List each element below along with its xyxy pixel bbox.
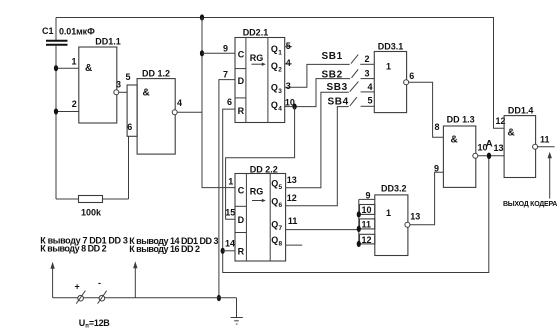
stub DD2.2 Q8 xyxy=(286,244,303,246)
register DD2.1 xyxy=(235,27,285,122)
wire C1 top vertical xyxy=(55,18,57,41)
svg-text:11: 11 xyxy=(362,220,372,230)
svg-text:Q: Q xyxy=(271,61,278,71)
svg-text:5: 5 xyxy=(126,72,131,82)
svg-text:Q: Q xyxy=(271,100,278,110)
svg-text:10: 10 xyxy=(285,97,295,107)
pin cell 11 xyxy=(360,219,375,229)
wire DD2.2 pin 14 stub xyxy=(223,250,235,252)
svg-text:C: C xyxy=(238,50,245,60)
svg-text:11: 11 xyxy=(540,134,550,144)
svg-text:Q: Q xyxy=(271,196,278,206)
switch SB3 xyxy=(350,82,359,92)
svg-text:3: 3 xyxy=(278,88,282,95)
svg-text:1: 1 xyxy=(386,208,391,218)
svg-text:DD2.1: DD2.1 xyxy=(243,27,269,37)
connector plus xyxy=(75,282,86,304)
pin cell 10 xyxy=(360,205,375,215)
gate DD1.4 xyxy=(504,106,549,178)
wire DD1.1 pin 2 xyxy=(56,111,79,113)
wire DD1.1 pin 1 xyxy=(56,67,79,69)
svg-text:&: & xyxy=(143,88,150,99)
svg-text:12: 12 xyxy=(362,235,372,245)
svg-text:&: & xyxy=(451,135,458,146)
svg-text:DD 1.2: DD 1.2 xyxy=(142,69,170,79)
svg-text:1: 1 xyxy=(386,62,391,72)
svg-text:7: 7 xyxy=(223,69,228,79)
logic gate DD3.1 xyxy=(374,42,414,113)
svg-text:DD1.1: DD1.1 xyxy=(95,36,121,46)
junction R-net at DD2.2 pin 14 xyxy=(221,248,225,254)
wire DD3.1 pin6 to DD1.3 pin 8 xyxy=(409,82,444,137)
svg-text:Q: Q xyxy=(271,235,278,245)
wire DD2.2 Q6 pin 12 to SB4 xyxy=(286,107,349,206)
svg-text:3: 3 xyxy=(286,81,291,91)
svg-text:13: 13 xyxy=(494,143,504,153)
svg-text:DD 2.2: DD 2.2 xyxy=(250,165,278,175)
svg-text:D: D xyxy=(238,215,245,225)
wire DD2.2 Q5 pin 13 to SB3 xyxy=(286,92,349,188)
wire DD3.1 pin 2 xyxy=(360,63,374,65)
stub DD2.1 Q1 pin 5 xyxy=(285,46,292,48)
arrow to pins left xyxy=(50,262,54,298)
junction on top rail clock net xyxy=(200,14,204,20)
svg-text:12: 12 xyxy=(287,193,297,203)
switch SB1 xyxy=(351,55,358,64)
svg-text:5: 5 xyxy=(286,41,291,51)
svg-text:4: 4 xyxy=(177,98,182,108)
svg-text:ВЫХОД КОДЕРА: ВЫХОД КОДЕРА xyxy=(503,201,557,208)
svg-text:2: 2 xyxy=(278,66,282,73)
capacitor C1 xyxy=(42,26,95,45)
wire DD3.1 pin 4 xyxy=(361,91,375,93)
svg-text:RG: RG xyxy=(250,53,263,63)
power rail xyxy=(53,297,237,299)
svg-text:5: 5 xyxy=(368,96,373,106)
svg-text:3: 3 xyxy=(365,68,370,78)
svg-text:К выводу 16 DD 2: К выводу 16 DD 2 xyxy=(129,244,200,254)
svg-text:4: 4 xyxy=(278,106,282,113)
svg-text:Uп=12В: Uп=12В xyxy=(79,318,110,330)
connector minus xyxy=(98,278,107,304)
wire pin3 to DD1.2 xyxy=(119,91,127,93)
svg-text:4: 4 xyxy=(368,82,373,92)
output arrow xyxy=(548,152,552,199)
junction Q4 xyxy=(293,104,297,110)
wire DD2.1 Q3 pin 3 to SB1 xyxy=(285,64,350,87)
resistor R1 100k loop xyxy=(56,136,129,217)
svg-text:15: 15 xyxy=(225,207,235,217)
svg-text:C1: C1 xyxy=(42,26,54,36)
gate DD1.2 xyxy=(126,69,183,155)
svg-text:SB4: SB4 xyxy=(328,96,349,107)
svg-text:5: 5 xyxy=(279,184,283,191)
svg-text:Q: Q xyxy=(271,83,278,93)
svg-text:DD3.2: DD3.2 xyxy=(381,183,407,193)
svg-text:6: 6 xyxy=(409,71,414,81)
wire DD2.1 pin 7 D-net down to power rail xyxy=(219,80,235,298)
switch SB4 xyxy=(350,97,357,106)
svg-text:SB2: SB2 xyxy=(322,69,343,80)
svg-text:SB3: SB3 xyxy=(327,82,348,93)
svg-text:&: & xyxy=(85,63,92,74)
svg-text:1: 1 xyxy=(228,176,233,186)
svg-text:6: 6 xyxy=(227,97,232,107)
logic gate DD3.2 xyxy=(375,183,420,255)
wire DD2.1 pin 6 R-net down, feedback to node A xyxy=(223,109,489,272)
gate DD1.3 xyxy=(443,114,487,187)
op-amp DD1.1 NAND gate xyxy=(79,36,121,123)
svg-text:8: 8 xyxy=(435,122,440,132)
svg-text:DD 1.3: DD 1.3 xyxy=(447,114,475,124)
wire DD1.4 output xyxy=(538,146,555,148)
svg-text:2: 2 xyxy=(365,54,370,64)
wire DD3.1 pin 5 xyxy=(361,105,375,107)
svg-text:7: 7 xyxy=(279,225,283,232)
junction clock at DD2.1 pin9 xyxy=(200,50,204,56)
svg-text:DD1.4: DD1.4 xyxy=(508,106,534,116)
svg-text:0.01мкФ: 0.01мкФ xyxy=(59,26,95,36)
svg-text:C: C xyxy=(238,185,245,195)
register DD2.2 xyxy=(235,165,286,262)
node A wire to DD1.4 pin 13 xyxy=(478,155,504,157)
ground xyxy=(231,298,243,324)
wire DD3.2 pin 9 xyxy=(359,198,375,200)
svg-text:R: R xyxy=(238,246,245,256)
arrow to pins right xyxy=(133,261,137,298)
svg-text:6: 6 xyxy=(127,122,132,132)
wire DD3.2 pin13 to DD1.3 pin 9 xyxy=(410,172,444,224)
switch SB2 xyxy=(352,69,359,78)
wire Q4 to DD2.2 D pin 15 xyxy=(226,107,295,220)
svg-text:DD3.1: DD3.1 xyxy=(378,42,404,52)
svg-text:13: 13 xyxy=(287,175,297,185)
DD3.2 input bus xyxy=(358,199,360,244)
wire top rail from C1 to DD1.4 pin 12 xyxy=(56,18,504,129)
svg-text:&: & xyxy=(508,127,515,138)
svg-text:14: 14 xyxy=(225,239,235,249)
svg-text:11: 11 xyxy=(288,216,298,226)
wire DD2.2 Q7 pin 11 to DD3.2 xyxy=(286,229,359,231)
wire DD2.1 Q4 pin 10 to SB2 xyxy=(285,79,350,107)
svg-text:13: 13 xyxy=(410,212,420,222)
svg-text:9: 9 xyxy=(434,163,439,173)
junction pin2 xyxy=(54,108,58,114)
svg-text:Q: Q xyxy=(271,178,278,188)
junction D-net on rail xyxy=(217,295,221,301)
svg-text:1: 1 xyxy=(72,57,77,67)
svg-text:Q: Q xyxy=(271,219,278,229)
stub DD2.1 Q2 pin 4 xyxy=(285,63,292,65)
svg-text:A: A xyxy=(486,139,493,150)
svg-text:+: + xyxy=(75,282,80,292)
wire DD2.1 pin 9 xyxy=(202,52,235,54)
svg-text:R: R xyxy=(238,106,245,116)
wire DD3.1 pin 3 xyxy=(361,78,375,80)
svg-text:Q: Q xyxy=(271,44,278,54)
junction pin1 xyxy=(54,65,58,71)
wire clock net vertical to DD2.2 C xyxy=(202,18,235,188)
svg-text:9: 9 xyxy=(366,191,371,201)
svg-text:10: 10 xyxy=(362,205,372,215)
svg-text:3: 3 xyxy=(116,80,121,90)
svg-text:D: D xyxy=(238,76,245,86)
svg-text:2: 2 xyxy=(72,99,77,109)
junction node A xyxy=(487,153,491,159)
svg-text:SB1: SB1 xyxy=(322,51,343,62)
svg-text:4: 4 xyxy=(286,58,291,68)
svg-text:8: 8 xyxy=(279,240,283,247)
svg-text:-: - xyxy=(98,278,101,288)
svg-text:К выводу 8 DD 2: К выводу 8 DD 2 xyxy=(40,244,106,254)
wire DD1.2 pin4 to clock net xyxy=(177,111,202,113)
svg-text:6: 6 xyxy=(279,202,283,209)
svg-text:1: 1 xyxy=(278,49,282,56)
pin cell 12 xyxy=(360,234,375,244)
wire left vertical below C1 xyxy=(55,46,57,199)
svg-text:9: 9 xyxy=(223,43,228,53)
svg-text:100k: 100k xyxy=(81,207,102,217)
svg-text:RG: RG xyxy=(250,187,263,197)
